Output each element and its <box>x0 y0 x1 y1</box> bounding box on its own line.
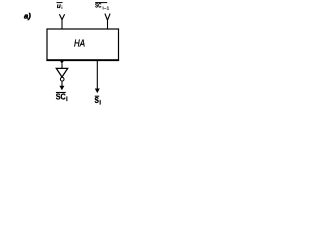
svg-text:HA: HA <box>74 38 85 49</box>
label SC_i (inverted carry output) <box>56 93 68 103</box>
output arrowhead s_i <box>95 89 100 94</box>
arrow stub below box (carry out) <box>60 61 64 64</box>
svg-text:i: i <box>61 5 62 11</box>
input arrow u_i <box>59 14 64 19</box>
svg-text:i–1: i–1 <box>102 5 109 11</box>
svg-text:i: i <box>99 99 101 106</box>
output arrowhead SC_i <box>59 86 64 90</box>
wire box to s_i arrow <box>96 61 98 89</box>
inverter triangle <box>56 68 67 77</box>
label s_i (inverted sum output) <box>94 94 101 106</box>
input arrow SC_{i-1} <box>105 14 110 21</box>
wire to inverter <box>61 64 63 70</box>
svg-text:SC: SC <box>95 3 102 10</box>
label SC_{i-1} (inverted carry input) <box>95 3 110 12</box>
svg-text:i: i <box>66 96 68 103</box>
wire bubble to arrow <box>61 81 63 87</box>
svg-text:SC: SC <box>56 93 66 102</box>
inverter bubble <box>60 77 64 81</box>
svg-text:s: s <box>94 94 99 106</box>
label u_i (inverted input u) <box>57 3 63 11</box>
svg-text:a): a) <box>24 11 31 20</box>
wire u_i to box <box>61 19 63 29</box>
wire SC_{i-1} to box <box>107 21 109 30</box>
half-adder box HA <box>46 29 119 60</box>
